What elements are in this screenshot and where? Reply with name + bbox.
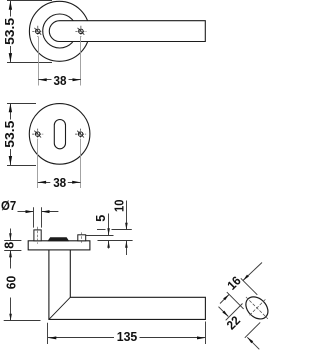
escutcheon circle (middle view) [29, 104, 90, 165]
svg-text:8: 8 [3, 242, 17, 249]
rose plate (side view) [28, 241, 90, 250]
rose inner collar circle [43, 14, 77, 48]
right screw post (side view) [78, 235, 86, 241]
grip cross-section ellipse (tilted 45) [237, 288, 276, 327]
right fixing screw symbol (top rose) [75, 26, 86, 37]
dimension 5 [86, 214, 114, 249]
right fixing screw symbol (escutcheon) [75, 129, 86, 140]
oval keyhole [54, 120, 65, 149]
dimension 53.5 (middle view) [7, 103, 36, 165]
svg-text:53.5: 53.5 [3, 18, 17, 45]
rose outer circle (front view) [29, 1, 89, 61]
svg-text:5: 5 [94, 215, 108, 222]
svg-text:Ø7: Ø7 [1, 199, 16, 213]
dimension 10 [97, 201, 133, 256]
dimension 60 [4, 250, 41, 320]
dimension 53.5 (top view) [7, 1, 52, 63]
lever bar (front view) [49, 21, 205, 42]
dimension 38 (top view) [39, 37, 81, 86]
svg-text:10: 10 [112, 200, 126, 213]
handle neck and grip (side view) [49, 250, 206, 320]
left screw post centerline [37, 227, 39, 244]
dimension 16 [220, 263, 262, 309]
svg-text:38: 38 [54, 74, 67, 88]
left fixing screw symbol (top rose) [32, 26, 43, 37]
dimension 38 (middle view) [38, 140, 81, 188]
svg-text:38: 38 [53, 176, 66, 190]
right screw post centerline [81, 232, 83, 243]
spindle boss (side view) [48, 238, 68, 241]
dimension 22 [219, 304, 261, 350]
svg-text:53.5: 53.5 [3, 121, 17, 148]
dimension 8 [4, 229, 21, 263]
miter seam line [49, 297, 70, 319]
svg-text:135: 135 [117, 330, 138, 344]
left fixing screw symbol (escutcheon) [32, 129, 43, 140]
left screw post (side view) [34, 230, 41, 241]
svg-text:60: 60 [4, 276, 18, 290]
dimension 135 [48, 322, 206, 345]
